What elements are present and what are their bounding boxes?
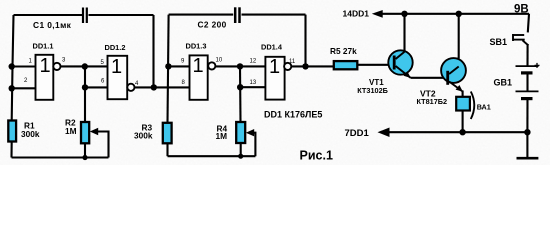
wire pin9 DD1.3 (169, 65, 190, 67)
svg-text:10: 10 (216, 58, 223, 64)
node pin11/loop2 (302, 63, 308, 69)
svg-text:С2 200: С2 200 (198, 20, 227, 30)
pin number labels (24, 58, 296, 88)
node junctions (9, 11, 531, 160)
node R4 bottom (238, 154, 243, 159)
svg-text:7DD1: 7DD1 (345, 128, 370, 139)
wire node to R2 top (84, 67, 86, 123)
pushbutton SB1 (512, 34, 528, 45)
wire bottom loop1 (12, 156, 109, 158)
svg-text:11: 11 (289, 59, 296, 65)
wire top rail loop2 right segment (242, 14, 306, 16)
resistor R2 (81, 122, 89, 143)
node BA1 bottom rail (459, 129, 465, 135)
node R2 bottom (82, 155, 87, 160)
svg-text:1М: 1М (65, 126, 77, 136)
node right rail bottom (524, 129, 530, 135)
wire pin11 DD1.4 output to R5 (291, 65, 334, 67)
transistor Q2 VT2 (441, 58, 466, 92)
svg-text:SB1: SB1 (490, 37, 508, 47)
wire pin13 DD1.4 (240, 86, 265, 88)
node pin3/R2 (82, 63, 88, 69)
wire top right corner to SB1 (528, 14, 529, 33)
battery GB1 (516, 63, 540, 99)
node pin9/loop2 (165, 63, 171, 69)
wire bottom supply rail (387, 131, 527, 133)
node pin10/R4 (237, 63, 243, 69)
svg-text:1: 1 (192, 55, 203, 77)
op-amp gate DD1.1 (36, 55, 61, 100)
transistor Q1 VT1 (388, 50, 412, 78)
wire pin10 DD1.3 output to pin12 DD1.4 (215, 65, 265, 67)
wire top rail loop1 right segment (89, 14, 154, 16)
op-amp gate DD1.4 (265, 56, 291, 100)
svg-text:300k: 300k (134, 131, 153, 141)
wire R1 bottom lead (10, 142, 12, 158)
wire R4 wiper shaft (253, 133, 256, 157)
capacitor C2 (235, 7, 239, 23)
wire BA1 bottom lead (462, 111, 464, 133)
arrow 14DD1 (372, 10, 383, 18)
wire loop2 left vertical (168, 15, 169, 123)
svg-text:R5 27k: R5 27k (330, 46, 357, 56)
svg-text:КТ3102Б: КТ3102Б (357, 86, 388, 95)
wire R3 bottom lead (166, 143, 168, 156)
wire GB1 bottom to rail (526, 99, 528, 132)
resistor R4 wiper arrow (246, 129, 254, 136)
svg-text:DD1.3: DD1.3 (186, 42, 207, 51)
wire pin1 DD1.1 (12, 65, 36, 67)
wire pin3 DD1.1 output to pin5 DD1.2 (60, 65, 107, 67)
wire VT2 emitter to BA1 (462, 91, 464, 97)
svg-text:1: 1 (111, 56, 122, 78)
op-amp gate DD1.2 (108, 56, 135, 99)
svg-text:1: 1 (269, 56, 280, 78)
arrow 7DD1 (378, 128, 390, 138)
wire pin4 DD1.2 output to pin8 DD1.3 (134, 86, 189, 88)
node pin6/R2 (82, 84, 88, 90)
node VT1 collector rail (401, 11, 407, 17)
wire VT1 collector (403, 14, 405, 52)
node pin13/R4 (237, 84, 243, 90)
op-amp gate DD1.3 (190, 55, 216, 100)
svg-text:DD1.1: DD1.1 (33, 42, 54, 51)
node VT2 collector rail (456, 11, 462, 17)
speaker BA1 (456, 92, 474, 120)
wire right rail to ground (526, 132, 528, 158)
wire loop2 right vertical (304, 15, 306, 67)
svg-text:ВА1: ВА1 (477, 103, 491, 112)
wire R4 bottom lead (240, 143, 242, 156)
svg-text:С1 0,1мк: С1 0,1мк (33, 20, 72, 30)
wire top supply rail (381, 13, 529, 15)
wire left rail (12, 15, 14, 121)
wire pin2 DD1.1 (12, 87, 36, 89)
node pin1 rail (9, 63, 15, 69)
wire VT2 collector (450, 14, 459, 65)
svg-text:DD1.2: DD1.2 (105, 43, 126, 52)
svg-text:12: 12 (250, 59, 257, 65)
node pin4/loop1 (151, 84, 157, 90)
wire SB1 to GB1 (526, 44, 528, 66)
svg-text:Рис.1: Рис.1 (300, 149, 333, 163)
resistor R3 (163, 123, 172, 144)
wire loop1 right vertical (152, 15, 154, 87)
wire bottom loop2 (168, 155, 256, 157)
wire R2 bottom lead (84, 143, 86, 157)
resistor R2 wiper arrow (90, 128, 98, 135)
wire R5 to VT1 base (357, 64, 393, 66)
svg-text:300k: 300k (21, 129, 40, 139)
svg-text:DD1.4: DD1.4 (261, 43, 283, 52)
svg-text:14DD1: 14DD1 (343, 9, 370, 19)
wire GB1 cells middle (526, 74, 528, 92)
wire pin6 DD1.2 (85, 86, 108, 88)
svg-text:GB1: GB1 (494, 78, 513, 88)
node pin2 rail (9, 85, 15, 91)
svg-text:КТ817Б2: КТ817Б2 (417, 97, 448, 106)
resistor R4 (236, 122, 245, 143)
resistor R5 (334, 61, 358, 69)
wire top rail loop1 left segment (14, 14, 83, 16)
capacitor C1 (83, 8, 87, 24)
svg-text:9В: 9В (514, 4, 529, 16)
svg-text:DD1 К176ЛЕ5: DD1 К176ЛЕ5 (264, 110, 322, 120)
svg-text:1: 1 (39, 55, 50, 77)
wire VT1 emitter to VT2 base (411, 77, 447, 79)
wire node to R4 top (239, 66, 242, 122)
svg-text:1М: 1М (216, 131, 228, 141)
svg-text:13: 13 (250, 80, 257, 86)
wire top rail loop2 left segment (169, 14, 234, 16)
wire R2 wiper shaft (97, 132, 109, 158)
ground (517, 157, 539, 160)
resistor R1 (8, 121, 16, 142)
